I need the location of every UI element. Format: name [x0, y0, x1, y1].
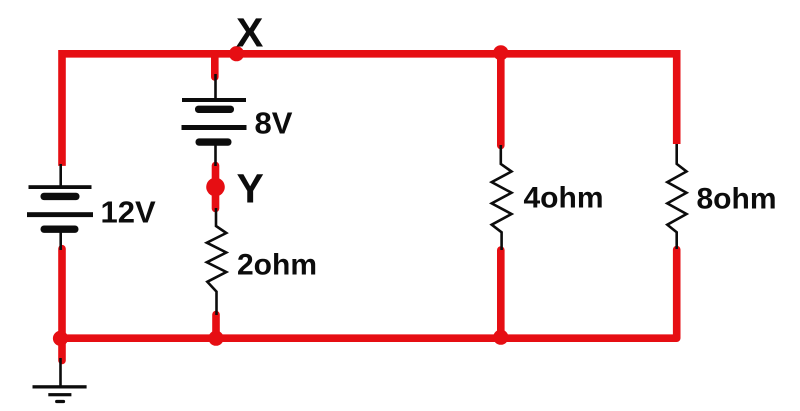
- svg-text:Y: Y: [237, 166, 264, 212]
- svg-text:X: X: [236, 9, 263, 55]
- svg-text:8ohm: 8ohm: [697, 182, 777, 215]
- svg-text:12V: 12V: [101, 194, 156, 229]
- svg-text:4ohm: 4ohm: [524, 181, 604, 214]
- svg-text:8V: 8V: [255, 106, 293, 141]
- svg-text:2ohm: 2ohm: [237, 249, 317, 282]
